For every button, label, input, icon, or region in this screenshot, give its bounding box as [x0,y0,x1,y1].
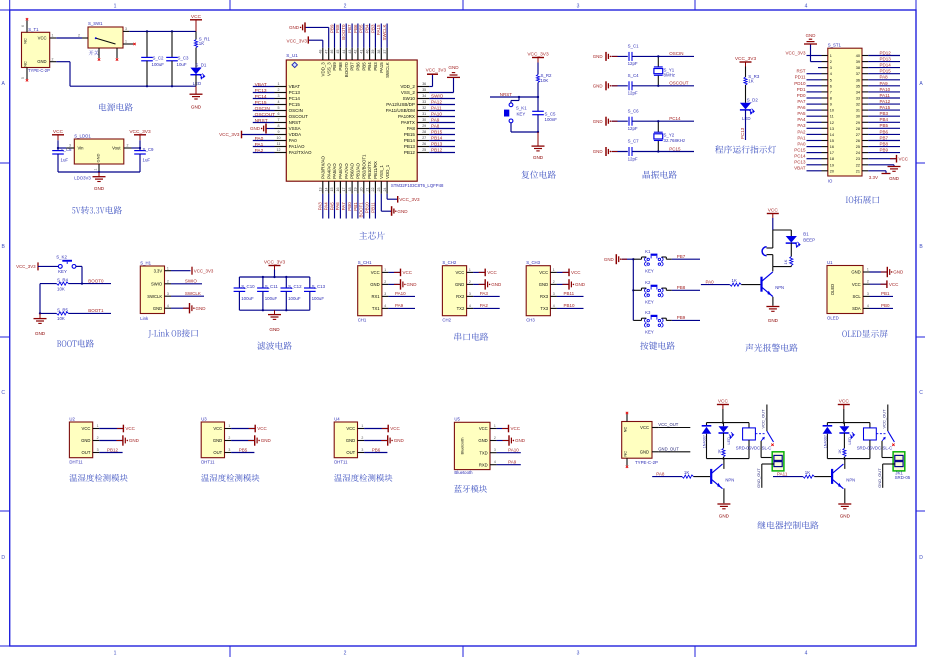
svg-text:S_C9: S_C9 [143,147,155,152]
resistor 1K relay [717,433,725,459]
svg-text:RST: RST [797,69,806,74]
svg-text:TYPE-C-2P: TYPE-C-2P [28,68,50,73]
svg-text:SWIO: SWIO [431,94,444,99]
caption 温湿度检测模块 U3 [201,474,209,482]
svg-text:1K: 1K [748,78,753,83]
wire GND oled [870,271,888,273]
svg-text:1K: 1K [684,470,689,475]
svg-text:PB0: PB0 [347,202,352,211]
wire VCC down [772,218,774,230]
svg-text:GND: GND [196,306,207,311]
wire PB6 [364,452,387,454]
capacitor S_C4 12pF [628,73,640,96]
svg-text:2: 2 [469,280,471,284]
wire PC13 [745,110,747,140]
svg-text:PA10: PA10 [395,291,406,296]
svg-text:1: 1 [553,268,555,272]
wire PD15 [868,73,900,75]
svg-text:25: 25 [856,145,860,149]
svg-text:PC13: PC13 [289,90,301,95]
svg-text:1: 1 [384,268,386,272]
svg-text:VCC: VCC [82,426,91,431]
svg-text:7: 7 [830,90,832,94]
capacitor S_C10 100uF [234,277,256,310]
wire PA10 [388,295,415,297]
svg-text:2: 2 [52,57,54,61]
wire PB9 [868,152,900,154]
svg-text:Vout: Vout [112,146,121,151]
svg-text:NRST: NRST [289,120,302,125]
svg-text:VDD_3: VDD_3 [320,62,325,77]
wire GND to rail [622,258,634,260]
svg-text:GND: GND [407,282,418,287]
svg-text:S_CH1: S_CH1 [358,260,372,265]
svg-text:PB7: PB7 [677,254,686,259]
wire GND pin22 [868,164,894,166]
svg-text:PD1: PD1 [797,87,806,92]
svg-text:4: 4 [469,304,471,308]
wire collector relay [723,459,725,469]
wire LDO ground rail [58,171,140,173]
svg-text:VCC_3V3: VCC_3V3 [287,39,308,44]
svg-text:2: 2 [344,4,347,10]
wire emitter relay [723,488,725,503]
svg-text:48: 48 [319,50,323,54]
svg-text:SW10: SW10 [403,96,416,101]
svg-text:S_R4: S_R4 [57,278,69,283]
svg-text:SWCLK: SWCLK [385,62,390,78]
svg-text:3: 3 [384,292,386,296]
power port VCC_3V3 jlink [191,267,193,275]
wire PA5 [807,115,822,117]
ground GND U2 [116,440,123,442]
svg-text:4: 4 [805,651,808,657]
caption 声光报警电路 [745,344,753,352]
svg-text:GND: GND [346,438,355,443]
svg-text:PB12: PB12 [404,150,416,155]
resistor S_R3 1K [744,67,760,86]
svg-text:LDO3V3: LDO3V3 [74,176,91,181]
svg-text:1: 1 [52,34,54,38]
sensor module U2 DHT11 [69,416,99,464]
svg-text:U2: U2 [69,416,75,421]
wire GND_OUT relay [883,463,895,465]
wire VDDA pin9 [242,134,275,136]
push button K1 KEY [633,249,672,273]
svg-text:C: C [919,390,923,396]
svg-text:PA3: PA3 [318,202,323,211]
wire SWIO [171,283,202,285]
svg-text:7: 7 [278,118,280,122]
svg-text:VCC_3V3: VCC_3V3 [426,68,447,73]
svg-text:S_U1: S_U1 [286,53,298,58]
resistor S_R5 10K [57,308,69,322]
svg-text:PB3: PB3 [370,24,375,33]
svg-text:VCC: VCC [539,270,548,275]
ground GND relay [717,503,730,505]
svg-text:1N4007: 1N4007 [824,435,828,448]
wire pin27 [429,140,455,142]
wire VCC to rail [843,409,845,423]
svg-text:PB8: PB8 [335,24,340,33]
svg-text:U3: U3 [201,416,207,421]
svg-text:15: 15 [830,139,834,143]
caption 程序运行指示灯 [715,145,723,153]
svg-text:GND: GND [478,438,487,443]
svg-text:PA1/AO: PA1/AO [289,144,305,149]
svg-text:VCC: VCC [640,425,649,430]
svg-text:S_CH2: S_CH2 [442,260,456,265]
svg-text:S_LDO1: S_LDO1 [74,133,91,138]
svg-text:PC15: PC15 [794,148,806,153]
svg-text:GND: GND [593,149,603,154]
ground GND oled [881,271,888,273]
svg-text:GND: GND [515,438,526,443]
svg-text:PA8: PA8 [880,75,889,80]
svg-text:LED: LED [727,437,731,445]
svg-text:GND: GND [191,105,202,110]
svg-text:40: 40 [856,54,860,58]
wire S_C7 to net [632,151,694,153]
capacitor S_C13 100uF [304,277,326,310]
svg-text:1: 1 [361,424,363,428]
svg-text:PB10: PB10 [365,202,370,214]
svg-text:GND: GND [94,186,105,191]
capacitor S_C11 100uF [257,277,278,310]
svg-text:13: 13 [830,127,834,131]
wire S_C1 to net [632,55,694,57]
svg-text:PA0: PA0 [289,138,298,143]
svg-text:100uF: 100uF [288,296,301,301]
svg-text:27: 27 [856,133,860,137]
svg-text:S_C4: S_C4 [628,73,640,78]
svg-text:12pF: 12pF [628,61,638,66]
svg-text:PC13: PC13 [255,88,267,94]
svg-text:LED: LED [742,116,751,121]
svg-text:SWCLK: SWCLK [185,291,201,296]
svg-text:GND: GND [593,54,603,59]
junction [262,276,264,278]
svg-text:PA8: PA8 [407,126,416,131]
no-connect SW1 pin4 [98,58,100,60]
svg-text:PA11: PA11 [431,106,442,111]
wire PB1 [870,295,894,297]
caption 5V转3.3V电路 [72,207,75,214]
MCU S_U1 STM32F103C8T6_LQFP48 [275,48,445,194]
ground GND relay [838,503,851,505]
svg-text:SWIO: SWIO [185,279,197,284]
caption 电源电路 [99,103,106,111]
wire NO contact to connector [881,441,883,458]
svg-text:4: 4 [805,4,808,10]
wire pin7 [253,122,275,124]
svg-text:PA10: PA10 [508,448,519,453]
svg-text:OSCIN: OSCIN [289,108,303,113]
svg-text:25: 25 [422,148,426,152]
caption 晶振电路 [643,171,651,179]
svg-text:PB9: PB9 [677,315,686,320]
wire pin33 [429,104,455,106]
wire pin3 stub [818,67,822,69]
wire PD0 [807,97,822,99]
svg-text:39: 39 [856,60,860,64]
svg-text:1N4007: 1N4007 [703,435,707,448]
svg-text:VCC: VCC [889,282,899,287]
wire 3.3V pin21 [868,170,886,172]
svg-text:PB13: PB13 [404,144,416,149]
wire GND U2 [99,440,123,442]
serial module S_CH1 [358,260,389,322]
wire VBAT [807,170,822,172]
ground GND reset [537,132,539,146]
svg-text:B1: B1 [803,232,809,237]
wire PB11 [374,194,376,219]
wire GND_OUT relay [762,463,774,465]
wire pin1 [253,86,275,88]
svg-text:S_D1: S_D1 [195,62,207,67]
power port VCC header [890,158,897,160]
svg-text:1: 1 [830,54,832,58]
svg-text:VCC: VCC [487,270,497,275]
svg-text:42: 42 [354,50,358,54]
wire PB0 [351,194,353,219]
svg-text:PA9: PA9 [880,81,889,86]
svg-text:10: 10 [277,136,281,140]
svg-text:SRD-05: SRD-05 [895,475,911,480]
ground GND LDO [98,172,100,177]
wire PA4 [328,194,330,219]
wire Vout to VCC_3V3 [132,147,141,149]
svg-text:4: 4 [278,100,280,104]
wire GND U4 [364,440,388,442]
svg-text:22: 22 [371,188,375,192]
svg-text:PB3: PB3 [880,111,889,116]
svg-text:S_SW1: S_SW1 [88,21,103,26]
svg-text:PB7: PB7 [350,62,355,71]
wire relay bottom rail [707,458,750,460]
wire pin32 [429,110,455,112]
svg-text:24: 24 [383,188,387,192]
diode 1N4007 [702,423,712,459]
svg-text:3: 3 [830,66,832,70]
svg-text:GND: GND [250,126,261,131]
LED B1 BEEP [786,230,815,247]
svg-text:18: 18 [348,188,352,192]
wire PA9 bt [497,464,521,466]
svg-text:PA10: PA10 [431,112,442,117]
svg-text:PA12: PA12 [431,100,442,105]
svg-text:S_C5: S_C5 [545,112,557,117]
svg-text:PD13: PD13 [880,57,892,62]
svg-text:SWCLK: SWCLK [382,25,387,41]
caption 温湿度检测模块 U2 [69,474,77,482]
resistor 1K relay base [803,470,831,478]
svg-text:8: 8 [278,124,280,128]
svg-text:32: 32 [422,106,426,110]
wire PB7 [672,258,700,260]
junction [81,283,83,285]
wire emitter [772,297,774,306]
wire PA11 [773,476,803,478]
svg-text:1: 1 [494,424,496,428]
svg-text:37: 37 [856,72,860,76]
svg-text:OLED: OLED [830,284,835,295]
terminal connector JK relay [772,452,784,471]
svg-text:47: 47 [324,50,328,54]
svg-text:PB14: PB14 [431,136,443,141]
svg-text:SDA: SDA [852,306,861,311]
wire PB3 [374,24,376,48]
resistor 1K base [730,278,761,286]
wire PA4 [807,121,822,123]
svg-text:100nF: 100nF [545,117,558,122]
svg-text:GND: GND [213,438,222,443]
svg-text:1: 1 [469,268,471,272]
svg-text:3: 3 [494,448,496,452]
svg-text:OUT: OUT [213,450,222,455]
svg-text:GND: GND [455,282,464,287]
svg-text:VCC_OUT: VCC_OUT [658,422,678,427]
svg-text:100uF: 100uF [152,62,165,67]
wire VCC to rail [722,409,724,423]
svg-text:PB1: PB1 [353,202,358,211]
svg-text:OSCIN: OSCIN [669,51,683,56]
svg-text:20: 20 [359,188,363,192]
wire PB8 [868,146,900,148]
wire T1 VCC to SW1 [56,37,82,39]
capacitor S_C6 12pF [628,108,640,131]
svg-text:NC: NC [23,61,28,67]
wire PB12 [99,452,122,454]
wire PB3 [868,115,900,117]
svg-text:PB12: PB12 [431,148,443,153]
svg-text:PB2/BOOT1: PB2/BOOT1 [361,154,366,179]
resistor 1K relay base [682,470,710,478]
svg-text:SCL: SCL [853,294,862,299]
svg-text:PA7: PA7 [797,99,806,104]
svg-text:PB6: PB6 [880,129,889,134]
svg-text:U5: U5 [454,417,460,422]
wire K2 to BOOT0 node [76,265,82,267]
svg-text:VCC: VCC [346,426,355,431]
svg-text:14: 14 [324,188,328,192]
wire GND jlink [171,307,190,309]
svg-text:2: 2 [867,280,869,284]
ground GND filter [274,310,276,314]
svg-text:5: 5 [278,106,280,110]
capacitor S_C5 100nF [532,97,557,132]
svg-text:S_C6: S_C6 [628,108,640,113]
wire pin34 [429,98,455,100]
wire alarm top node [773,229,792,231]
svg-text:PC14: PC14 [669,116,681,121]
caption IO拓展口 [846,197,848,203]
wire filter top rail [239,276,309,278]
wire emitter relay [844,488,846,503]
svg-text:PB0: PB0 [881,303,890,308]
wire NRST [490,96,538,98]
svg-text:NC: NC [622,427,627,433]
capacitor S_C1 12pF [628,44,640,67]
svg-text:NPN: NPN [775,285,784,290]
svg-text:PA3: PA3 [797,123,806,128]
wire PC13 [807,164,822,166]
wire VCC to Vin [57,140,59,148]
svg-text:VCC: VCC [257,426,267,431]
svg-text:PB4: PB4 [367,62,372,71]
wire PA0 [807,146,822,148]
junction [632,289,634,291]
svg-text:PA0: PA0 [255,136,264,142]
wire PA2 [807,133,822,135]
svg-text:IO: IO [828,178,833,183]
svg-text:PB5: PB5 [239,447,248,452]
svg-text:4: 4 [553,304,555,308]
svg-text:VCC: VCC [390,426,400,431]
power port VCC bt [502,428,509,430]
svg-text:40: 40 [365,50,369,54]
svg-text:PA2/TX/AO: PA2/TX/AO [289,150,312,155]
svg-text:PA12: PA12 [880,99,891,104]
connector S_T1 TYPE-C-2P [21,21,56,80]
svg-text:100uF: 100uF [265,296,278,301]
svg-text:44: 44 [342,50,346,54]
junction [139,147,141,149]
junction [537,96,539,98]
svg-text:43: 43 [348,50,352,54]
wire collector [772,267,774,272]
svg-text:GND: GND [153,306,162,311]
caption 按键电路 [640,342,648,350]
svg-text:S_C7: S_C7 [628,139,640,144]
wire PA3 [473,295,500,297]
wire pin6 [253,116,275,118]
svg-text:GND: GND [533,155,544,160]
svg-text:4: 4 [867,304,869,308]
power port VCC U4 [382,428,389,430]
svg-text:3: 3 [469,292,471,296]
svg-text:Bluetooth: Bluetooth [460,438,465,455]
svg-text:23: 23 [377,188,381,192]
wire VCC S_CH1 [388,271,400,273]
svg-text:10K: 10K [541,78,549,83]
wire VCC S_CH3 [557,271,569,273]
wire VCC oled [870,283,887,285]
svg-text:S_C10: S_C10 [241,284,255,289]
resistor 1K relay [838,433,846,459]
wire VDD_1 to VCC_3V3 [386,194,388,199]
caption 串口电路 [454,333,461,341]
svg-text:OSCIN: OSCIN [255,106,271,112]
svg-text:VCC_3V3: VCC_3V3 [16,264,36,269]
svg-text:S_C3: S_C3 [178,55,190,60]
wire VCC pin23 [868,158,896,160]
wire PB10 [557,307,584,309]
svg-text:VCC: VCC [371,270,380,275]
svg-text:VCC: VCC [899,156,909,161]
svg-text:PB7: PB7 [880,135,889,140]
svg-text:S_C11: S_C11 [265,284,279,289]
svg-text:DHT11: DHT11 [201,459,215,464]
wire VCC_OUT pole [766,405,768,432]
svg-text:C: C [1,390,5,396]
svg-text:3: 3 [125,27,127,31]
resistor 1K alarm [783,243,793,267]
svg-text:K1: K1 [645,249,651,254]
wire PB10 [369,194,371,219]
svg-text:BOOT0: BOOT0 [88,278,104,283]
svg-text:GND: GND [370,282,379,287]
